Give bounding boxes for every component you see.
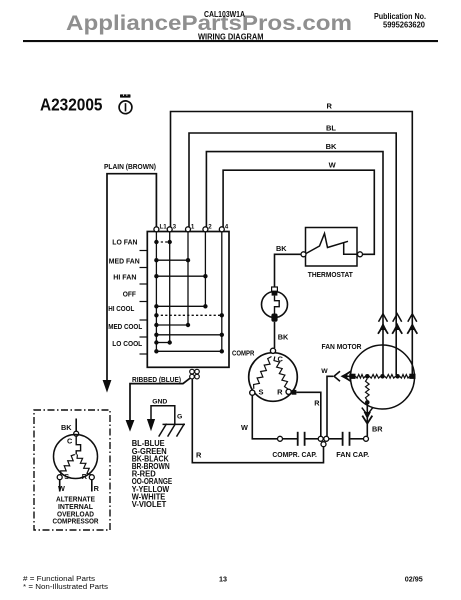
svg-text:BK: BK	[61, 423, 72, 432]
svg-text:GND: GND	[152, 399, 167, 406]
svg-text:C: C	[67, 437, 73, 446]
svg-text:L1: L1	[160, 223, 168, 230]
svg-text:COMPR. CAP.: COMPR. CAP.	[272, 450, 317, 459]
svg-text:R: R	[277, 388, 283, 397]
svg-text:W: W	[241, 423, 248, 432]
svg-text:02/95: 02/95	[405, 574, 423, 583]
svg-text:1: 1	[191, 223, 195, 230]
svg-text:FAN CAP.: FAN CAP.	[336, 450, 369, 459]
svg-text:R: R	[94, 484, 100, 493]
svg-text:ALTERNATE: ALTERNATE	[56, 497, 95, 504]
svg-text:BL: BL	[326, 123, 336, 132]
svg-text:MED FAN: MED FAN	[109, 257, 140, 266]
svg-text:5995263620: 5995263620	[383, 21, 426, 30]
svg-text:2: 2	[208, 223, 212, 230]
svg-text:3: 3	[173, 223, 177, 230]
svg-text:HI COOL: HI COOL	[108, 304, 134, 313]
svg-text:MED COOL: MED COOL	[108, 322, 142, 331]
svg-text:W: W	[58, 484, 65, 493]
svg-text:# = Functional Parts: # = Functional Parts	[23, 576, 96, 583]
svg-text:THERMOSTAT: THERMOSTAT	[308, 270, 353, 279]
svg-text:A232005: A232005	[40, 95, 103, 115]
svg-text:OFF: OFF	[123, 289, 137, 298]
svg-text:R: R	[196, 451, 202, 460]
svg-text:BK: BK	[326, 142, 337, 151]
svg-text:HI FAN: HI FAN	[113, 272, 136, 281]
svg-text:LO FAN: LO FAN	[112, 238, 137, 247]
svg-text:V-VIOLET: V-VIOLET	[132, 500, 167, 509]
svg-text:COMPR: COMPR	[232, 349, 255, 358]
svg-text:R: R	[82, 472, 88, 481]
svg-text:S: S	[64, 472, 69, 481]
svg-text:BR: BR	[372, 424, 383, 433]
svg-text:W: W	[329, 160, 337, 169]
svg-text:RIBBED (BLUE): RIBBED (BLUE)	[132, 375, 181, 384]
svg-text:W: W	[321, 368, 328, 375]
svg-text:4: 4	[225, 223, 229, 230]
svg-text:FAN MOTOR: FAN MOTOR	[322, 342, 363, 351]
svg-text:LO COOL: LO COOL	[112, 339, 142, 348]
svg-text:R: R	[327, 102, 333, 111]
svg-text:13: 13	[219, 574, 227, 583]
svg-text:* = Non-Illustrated Parts: * = Non-Illustrated Parts	[23, 584, 109, 591]
svg-text:BK: BK	[278, 333, 289, 342]
svg-text:G: G	[177, 413, 182, 420]
svg-text:R: R	[314, 398, 320, 407]
svg-text:OVERLOAD: OVERLOAD	[57, 511, 94, 518]
svg-text:BK: BK	[276, 244, 287, 253]
svg-text:INTERNAL: INTERNAL	[58, 504, 94, 511]
svg-text:COMPRESSOR: COMPRESSOR	[53, 518, 99, 525]
svg-text:PLAIN (BROWN): PLAIN (BROWN)	[104, 162, 156, 171]
svg-text:CAL103W1A: CAL103W1A	[204, 10, 245, 19]
svg-text:S: S	[259, 388, 264, 397]
